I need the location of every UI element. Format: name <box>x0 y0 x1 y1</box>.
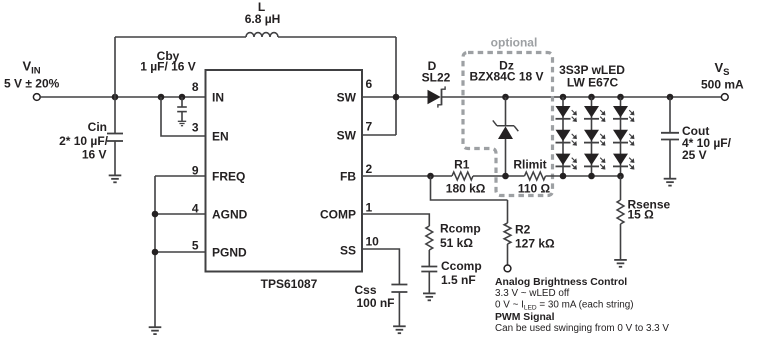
svg-text:51 kΩ: 51 kΩ <box>440 236 473 250</box>
svg-text:COMP: COMP <box>320 207 356 221</box>
wire AGND <box>155 213 206 215</box>
wire top rail right <box>278 36 396 38</box>
wire R2 top lead <box>507 200 509 223</box>
op-amp U1 TPS61087 IC body <box>206 70 363 272</box>
svg-text:FB: FB <box>340 169 356 183</box>
svg-text:5 V ± 20%: 5 V ± 20% <box>4 77 60 91</box>
diode D schottky hook top <box>442 86 446 89</box>
wire VIN to IN pin <box>40 96 205 98</box>
node AGND junction <box>152 211 159 218</box>
LED D1 <box>556 106 577 121</box>
svg-text:15 Ω: 15 Ω <box>628 208 655 222</box>
ground Rsense <box>614 260 627 267</box>
svg-text:2: 2 <box>366 162 373 176</box>
terminal brightness control <box>504 265 511 272</box>
node Cby branch <box>179 94 186 101</box>
svg-text:TPS61087: TPS61087 <box>261 277 318 291</box>
svg-text:Rcomp: Rcomp <box>440 222 481 236</box>
svg-text:5: 5 <box>192 239 199 253</box>
wire Rcomp to Ccomp <box>428 250 430 267</box>
wire FREQ <box>155 175 206 177</box>
svg-text:BZX84C 18 V: BZX84C 18 V <box>469 69 543 83</box>
wire LED bottom rail <box>546 175 621 177</box>
ground Cin <box>109 175 122 182</box>
svg-text:10: 10 <box>366 235 380 249</box>
svg-text:110 Ω: 110 Ω <box>518 182 551 196</box>
node LED string 1 bottom <box>560 173 567 180</box>
svg-text:0 V ~ ILED = 30 mA (each strin: 0 V ~ ILED = 30 mA (each string) <box>495 300 634 312</box>
node LED string 2 top <box>588 94 595 101</box>
terminal VS <box>721 94 728 101</box>
svg-text:R2: R2 <box>515 223 531 237</box>
diode D schottky hook bottom <box>438 105 442 108</box>
node LED string 3 bottom <box>617 173 624 180</box>
wire output rail <box>442 96 722 98</box>
LED D2 <box>556 130 577 145</box>
node zener top <box>502 94 509 101</box>
resistor Rsense <box>617 200 624 224</box>
node SW junction <box>393 94 400 101</box>
zener Dz triangle <box>498 126 513 139</box>
node PGND junction <box>152 249 159 256</box>
node LED string 3 top <box>617 94 624 101</box>
wire rail down to SW pins <box>395 37 397 135</box>
capacitor Ccomp <box>421 267 437 272</box>
wire top rail left <box>115 36 246 38</box>
svg-text:1: 1 <box>366 201 373 215</box>
wire LED string 1 <box>562 97 564 176</box>
svg-text:1 µF/ 16 V: 1 µF/ 16 V <box>140 60 196 74</box>
svg-text:EN: EN <box>212 129 229 143</box>
svg-text:AGND: AGND <box>212 207 248 221</box>
inductor L <box>246 33 278 37</box>
wire SW pin 7 <box>362 134 396 136</box>
wire LED string 3 <box>620 97 622 176</box>
svg-text:LW E67C: LW E67C <box>567 76 619 90</box>
svg-text:Analog Brightness Control: Analog Brightness Control <box>495 277 627 288</box>
LED D9 <box>613 154 634 169</box>
LED D5 <box>584 130 605 145</box>
wire input node up to inductor rail <box>114 37 116 97</box>
capacitor Cin <box>107 134 123 142</box>
svg-text:16 V: 16 V <box>82 147 107 161</box>
svg-text:500 mA: 500 mA <box>701 78 744 92</box>
wire EN <box>161 97 206 136</box>
wire zener top lead <box>505 97 507 126</box>
node EN branch <box>158 94 165 101</box>
LED D8 <box>613 130 634 145</box>
svg-text:6: 6 <box>366 77 373 91</box>
svg-text:3.3 V ~ wLED off: 3.3 V ~ wLED off <box>495 288 569 299</box>
ground Css <box>393 326 406 333</box>
wire COMP to Rcomp <box>362 214 429 226</box>
svg-text:Can be used swinging from 0 V: Can be used swinging from 0 V to 3.3 V <box>495 323 669 334</box>
wire FB to R2 <box>431 176 508 200</box>
svg-text:25 V: 25 V <box>682 148 707 162</box>
LED D4 <box>584 106 605 121</box>
svg-text:6.8 µH: 6.8 µH <box>245 12 281 26</box>
wire Rsense to ground <box>620 224 622 260</box>
wire Cby to ground <box>181 112 183 122</box>
wire PGND <box>155 251 206 253</box>
svg-text:IN: IN <box>212 90 224 104</box>
capacitor Cby <box>177 107 187 112</box>
wire Cin to ground <box>114 141 116 175</box>
wire to Cin <box>114 97 116 134</box>
wire to Cby <box>181 97 183 107</box>
resistor R1 <box>452 172 473 180</box>
capacitor Css <box>391 285 407 293</box>
terminal VIN <box>33 94 40 101</box>
LED D7 <box>613 106 634 121</box>
capacitor Cout <box>661 133 679 140</box>
svg-text:Cin: Cin <box>88 120 107 134</box>
resistor Rlimit <box>525 172 546 180</box>
wire to Cout <box>669 97 671 133</box>
LED D6 <box>584 154 605 169</box>
ground IC <box>149 327 162 334</box>
node Cout junction <box>667 94 674 101</box>
svg-text:SW: SW <box>337 128 357 142</box>
svg-text:4: 4 <box>192 201 199 215</box>
optional dashed box <box>463 53 553 196</box>
wire Css to ground <box>398 292 400 326</box>
node LED string 2 bottom <box>588 173 595 180</box>
wire R2 to control terminal <box>507 244 509 265</box>
node LED string 1 top <box>560 94 567 101</box>
zener Dz cathode bar <box>493 120 519 131</box>
svg-text:SL22: SL22 <box>422 70 451 84</box>
svg-text:SS: SS <box>340 243 356 257</box>
node FB junction R2 <box>427 173 434 180</box>
resistor R2 <box>504 223 511 244</box>
node zener bottom junction <box>502 173 509 180</box>
svg-text:Rlimit: Rlimit <box>513 158 546 172</box>
wire SW to diode <box>362 96 428 98</box>
svg-text:127 kΩ: 127 kΩ <box>515 237 555 251</box>
ground Ccomp <box>423 293 436 300</box>
svg-text:optional: optional <box>491 36 538 50</box>
svg-text:Css: Css <box>354 283 376 297</box>
wire ground bus <box>154 176 156 327</box>
wire zener bottom lead <box>505 139 507 176</box>
wire LED rail to Rsense <box>620 176 622 200</box>
svg-text:R1: R1 <box>454 158 470 172</box>
svg-text:180 kΩ: 180 kΩ <box>446 182 486 196</box>
wire SS to Css <box>362 249 399 285</box>
svg-text:Ccomp: Ccomp <box>441 259 482 273</box>
LED D3 <box>556 154 577 169</box>
svg-text:2* 10 µF/: 2* 10 µF/ <box>59 134 109 148</box>
svg-text:FREQ: FREQ <box>212 169 245 183</box>
note analog brightness control <box>495 277 669 334</box>
svg-text:SW: SW <box>337 90 357 104</box>
diode D cathode bar <box>441 89 443 106</box>
resistor Rcomp <box>426 226 433 250</box>
wire LED string 2 <box>591 97 593 176</box>
svg-text:8: 8 <box>192 80 199 94</box>
wire Ccomp to ground <box>428 272 430 294</box>
svg-text:9: 9 <box>192 164 199 178</box>
wire R1 to Rlimit <box>473 175 525 177</box>
diode D SL22 <box>428 90 441 104</box>
svg-text:PWM Signal: PWM Signal <box>495 312 555 323</box>
ground Cout <box>664 179 677 186</box>
node input junction <box>112 94 119 101</box>
svg-text:1.5 nF: 1.5 nF <box>441 273 476 287</box>
svg-text:PGND: PGND <box>212 245 247 259</box>
wire FB to R1 <box>362 175 452 177</box>
svg-text:7: 7 <box>366 120 373 134</box>
ground Cby <box>178 121 186 125</box>
wire Cout to ground <box>669 140 671 179</box>
svg-text:3: 3 <box>192 121 199 135</box>
svg-text:100 nF: 100 nF <box>356 296 394 310</box>
